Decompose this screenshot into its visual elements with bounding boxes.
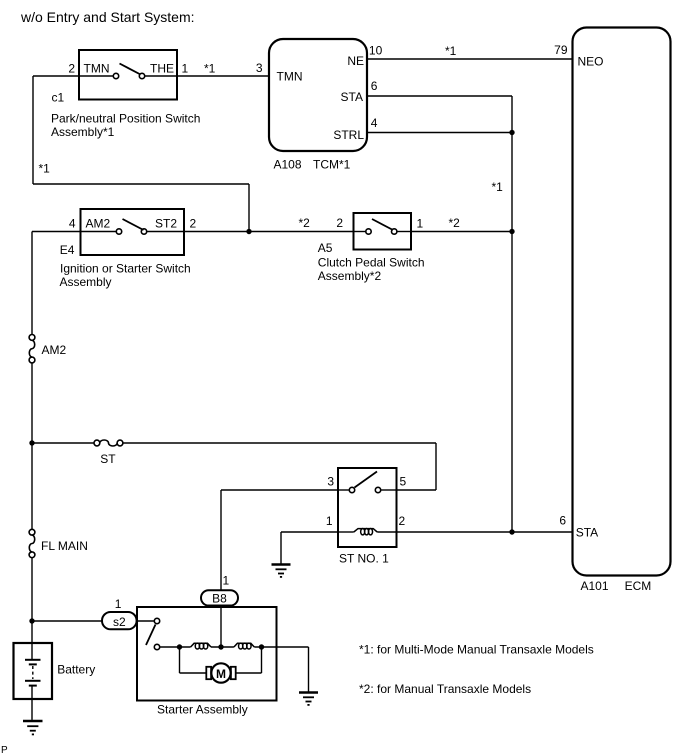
- svg-text:ST2: ST2: [155, 217, 177, 231]
- relay coil: [338, 531, 354, 533]
- svg-text:M: M: [216, 667, 226, 681]
- node STRL junction: [509, 130, 514, 135]
- svg-text:*1: *1: [204, 62, 216, 76]
- wire starter coil row: [160, 646, 191, 648]
- svg-text:Park/neutral Position Switch: Park/neutral Position Switch: [51, 111, 200, 125]
- svg-text:*2: for Manual Transaxle Model: *2: for Manual Transaxle Models: [359, 682, 531, 696]
- wire ST fuse to relay pin5: [123, 442, 436, 444]
- ground (relay): [272, 563, 291, 565]
- starter assembly box: [137, 607, 277, 701]
- svg-text:6: 6: [371, 79, 378, 93]
- wire STA to vertical: [367, 95, 512, 97]
- svg-text:A108: A108: [274, 158, 302, 172]
- switch A5 Clutch Pedal Switch box: [354, 213, 412, 250]
- wire B8 into starter: [220, 606, 222, 648]
- svg-text:A5: A5: [318, 241, 333, 255]
- node ST branch junction: [29, 440, 34, 445]
- svg-text:Starter Assembly: Starter Assembly: [157, 703, 248, 717]
- ground (battery): [23, 720, 43, 722]
- wire left vertical (lower part): [31, 558, 33, 643]
- wire: [254, 646, 276, 648]
- relay switch contacts: [338, 489, 349, 491]
- svg-text:STA: STA: [576, 526, 598, 540]
- wire motor branch left: [179, 647, 181, 673]
- svg-text:Clutch Pedal Switch: Clutch Pedal Switch: [318, 255, 425, 269]
- wire branch y184 to node: [33, 183, 249, 185]
- svg-text:ST NO. 1: ST NO. 1: [339, 552, 389, 566]
- wire relay pin2 to ECM STA: [397, 531, 573, 533]
- svg-text:5: 5: [400, 475, 407, 489]
- svg-text:AM2: AM2: [86, 217, 111, 231]
- switch c1 Park/neutral Position Switch box: [79, 50, 177, 100]
- svg-text:ST: ST: [100, 452, 116, 466]
- wire E4 pin2 to A5: [184, 231, 354, 233]
- wire c1 pin2 to left vertical: [33, 75, 79, 77]
- svg-text:1: 1: [182, 62, 189, 76]
- svg-text:A101: A101: [581, 579, 609, 593]
- wire: [211, 646, 234, 648]
- svg-text:4: 4: [69, 217, 76, 231]
- svg-text:NE: NE: [347, 54, 364, 68]
- node STA junction: [509, 529, 514, 534]
- wire starter to ground: [277, 646, 309, 648]
- svg-text:ECM: ECM: [625, 579, 652, 593]
- wire battery junction to s2: [32, 620, 102, 622]
- svg-text:s2: s2: [113, 615, 126, 629]
- svg-text:E4: E4: [60, 243, 75, 257]
- wire E4 pin4 to left vertical: [32, 231, 81, 233]
- TCM A108 box: [269, 39, 367, 151]
- connector B8: [201, 590, 238, 605]
- svg-text:Battery: Battery: [57, 662, 95, 676]
- svg-text:Assembly: Assembly: [60, 275, 112, 289]
- svg-text:P: P: [1, 745, 8, 755]
- svg-text:TCM*1: TCM*1: [313, 158, 351, 172]
- svg-text:2: 2: [68, 62, 75, 76]
- starter switch contacts: [137, 620, 154, 622]
- battery: [14, 643, 53, 699]
- wire left vertical (upper part): [31, 232, 33, 335]
- battery internals: [31, 643, 33, 660]
- svg-text:3: 3: [327, 475, 334, 489]
- svg-text:2: 2: [190, 217, 197, 231]
- fuse FL MAIN: [29, 529, 35, 535]
- motor M starter: [206, 667, 211, 679]
- svg-text:c1: c1: [52, 91, 65, 105]
- svg-text:THE: THE: [150, 62, 174, 76]
- wire c1 pin1 to TCM pin3: [177, 75, 269, 77]
- fuse ST: [94, 440, 100, 446]
- svg-text:TMN: TMN: [84, 62, 110, 76]
- svg-text:*2: *2: [449, 216, 461, 230]
- relay ST NO.1 box: [338, 468, 397, 547]
- svg-text:10: 10: [369, 44, 383, 58]
- node junction E4/A5 wire: [246, 229, 251, 234]
- svg-text:*1: *1: [492, 180, 504, 194]
- svg-text:79: 79: [554, 43, 568, 57]
- svg-text:Assembly*1: Assembly*1: [51, 125, 115, 139]
- svg-text:1: 1: [326, 514, 333, 528]
- ground (starter): [299, 691, 318, 693]
- svg-text:6: 6: [559, 514, 566, 528]
- svg-text:1: 1: [417, 217, 424, 231]
- wire NE to ECM NEO: [367, 58, 573, 60]
- switch c1 contacts: [79, 75, 113, 77]
- wire relay pin3 to B8: [221, 489, 338, 491]
- svg-text:4: 4: [371, 116, 378, 130]
- svg-text:1: 1: [115, 597, 122, 611]
- wire left vertical (mid part): [31, 363, 33, 529]
- svg-text:2: 2: [336, 216, 343, 230]
- svg-text:3: 3: [256, 61, 263, 75]
- node A5 junction: [509, 229, 514, 234]
- switch A5 lever: [372, 219, 393, 230]
- switch E4 lever: [123, 219, 144, 230]
- svg-text:B8: B8: [212, 591, 227, 605]
- svg-text:*1: for Multi-Mode Manual Tran: *1: for Multi-Mode Manual Transaxle Mode…: [359, 643, 594, 657]
- svg-text:w/o Entry and Start System:: w/o Entry and Start System:: [20, 9, 195, 25]
- node starter left junction: [177, 644, 182, 649]
- node battery junction: [29, 618, 34, 623]
- svg-text:2: 2: [399, 514, 406, 528]
- wire STRL to vertical: [367, 132, 512, 134]
- switch c1 lever: [120, 64, 141, 75]
- svg-text:*1: *1: [39, 162, 51, 176]
- svg-text:*1: *1: [445, 44, 457, 58]
- coil starter L2: [234, 643, 254, 647]
- svg-text:TMN: TMN: [277, 70, 303, 84]
- starter switch lever: [146, 625, 156, 646]
- switch E4 contacts: [81, 231, 117, 233]
- svg-text:STA: STA: [341, 90, 363, 104]
- wire relay pin1 to ground: [281, 531, 338, 533]
- switch A5 contacts: [354, 231, 366, 233]
- wire A5 pin1 to vertical: [411, 231, 512, 233]
- svg-text:1: 1: [223, 574, 230, 588]
- node starter center junction: [218, 644, 223, 649]
- svg-text:STRL: STRL: [333, 128, 364, 142]
- svg-text:AM2: AM2: [42, 343, 67, 357]
- wire to ST fuse: [32, 442, 94, 444]
- svg-text:NEO: NEO: [578, 55, 604, 69]
- svg-text:Ignition or Starter Switch: Ignition or Starter Switch: [60, 261, 191, 275]
- svg-text:Assembly*2: Assembly*2: [318, 269, 382, 283]
- coil starter L1: [191, 643, 211, 647]
- ECM A101 box: [573, 28, 671, 576]
- switch E4 Ignition or Starter Switch box: [81, 209, 185, 255]
- svg-text:FL MAIN: FL MAIN: [41, 539, 88, 553]
- relay switch lever: [355, 472, 378, 488]
- svg-text:*2: *2: [299, 216, 311, 230]
- fuse AM2: [29, 335, 35, 341]
- node starter right junction: [259, 644, 264, 649]
- wire motor branch right: [236, 672, 262, 674]
- connector s2: [102, 612, 137, 629]
